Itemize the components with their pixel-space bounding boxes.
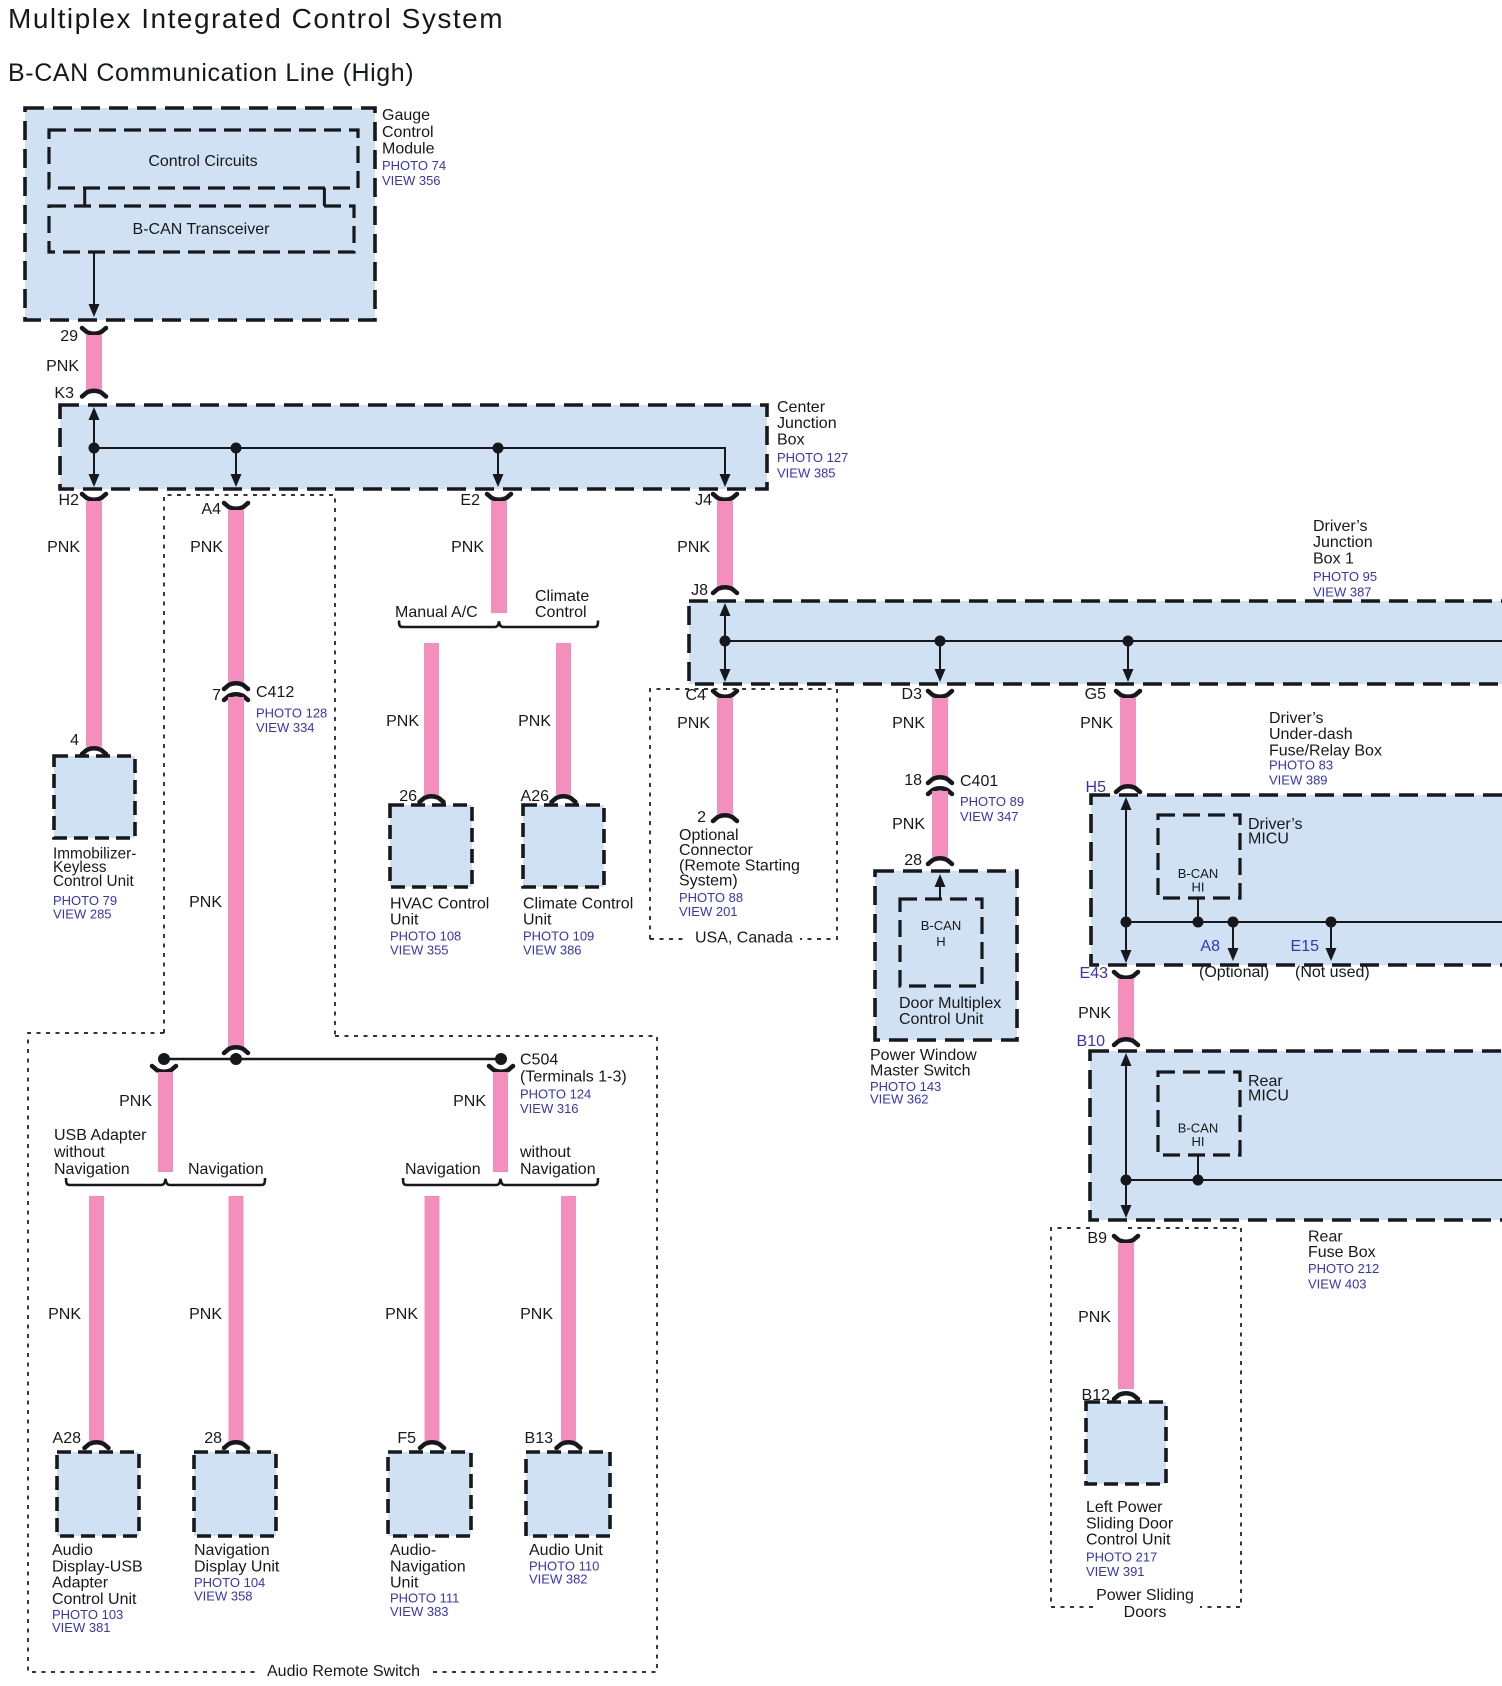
climate control unit box	[523, 805, 604, 887]
svg-text:PNK: PNK	[451, 539, 484, 556]
svg-text:VIEW 381: VIEW 381	[52, 1620, 111, 1635]
svg-text:Climate: Climate	[535, 588, 589, 605]
label climate control	[535, 588, 589, 621]
svg-text:PNK: PNK	[677, 539, 710, 556]
svg-text:Box: Box	[777, 431, 805, 448]
pin 26	[399, 788, 443, 805]
audio unit label	[529, 1542, 603, 1586]
svg-text:Display Unit: Display Unit	[194, 1558, 280, 1575]
svg-text:VIEW 389: VIEW 389	[1269, 773, 1328, 788]
wire PNK C4 to optional connector	[677, 698, 733, 814]
pin 2	[697, 809, 737, 826]
wire rear B-CAN HI to bus	[1193, 1155, 1204, 1186]
node B10/B9 vertical	[1121, 1053, 1132, 1218]
svg-text:Box 1: Box 1	[1313, 550, 1354, 567]
svg-text:(Not used): (Not used)	[1295, 964, 1370, 981]
node E15 drop	[1326, 917, 1337, 962]
svg-text:PHOTO 217: PHOTO 217	[1086, 1550, 1157, 1565]
node A8 drop	[1228, 917, 1239, 962]
svg-text:PHOTO 83: PHOTO 83	[1269, 758, 1333, 773]
svg-text:USA, Canada: USA, Canada	[695, 930, 793, 947]
rear fuse box label	[1308, 1229, 1379, 1292]
svg-text:Control: Control	[382, 124, 434, 141]
wire PNK C504 left stub	[119, 1072, 173, 1172]
pin G5	[1085, 686, 1140, 703]
B-CAN H block	[900, 899, 982, 986]
svg-text:Left Power: Left Power	[1086, 1499, 1163, 1516]
svg-text:USB Adapter: USB Adapter	[54, 1127, 147, 1144]
pin B10	[1077, 1033, 1138, 1050]
svg-text:VIEW 334: VIEW 334	[256, 720, 315, 735]
svg-text:A26: A26	[521, 788, 550, 805]
svg-text:E43: E43	[1080, 965, 1109, 982]
svg-text:VIEW 391: VIEW 391	[1086, 1564, 1145, 1579]
svg-text:Unit: Unit	[390, 1575, 419, 1592]
bus line in driver's junction box 1	[725, 640, 1502, 642]
pin H5	[1086, 779, 1140, 796]
svg-text:Audio: Audio	[52, 1542, 93, 1559]
pin B9	[1087, 1230, 1138, 1247]
svg-text:Audio Remote Switch: Audio Remote Switch	[267, 1663, 420, 1680]
svg-text:PNK: PNK	[48, 1306, 81, 1323]
svg-text:Navigation: Navigation	[390, 1558, 466, 1575]
svg-text:without: without	[53, 1144, 105, 1161]
svg-text:Climate Control: Climate Control	[523, 896, 633, 913]
wire PNK D3 to C401	[892, 698, 948, 778]
svg-text:Unit: Unit	[523, 912, 552, 929]
svg-text:VIEW 362: VIEW 362	[870, 1092, 929, 1107]
svg-text:PHOTO 88: PHOTO 88	[679, 890, 743, 905]
immobilizer-keyless control unit box	[54, 756, 135, 838]
svg-text:VIEW 355: VIEW 355	[390, 943, 449, 958]
svg-text:2: 2	[697, 809, 706, 826]
svg-text:without: without	[519, 1144, 571, 1161]
svg-text:F5: F5	[397, 1430, 416, 1447]
pin A26	[521, 788, 576, 805]
bus line in under-dash box	[1126, 921, 1502, 923]
door multiplex control unit label	[899, 995, 1001, 1028]
wire PNK J4 to J8	[677, 501, 733, 587]
svg-text:VIEW 382: VIEW 382	[529, 1571, 588, 1586]
power window master switch label	[870, 1047, 977, 1107]
svg-text:PNK: PNK	[386, 713, 419, 730]
svg-text:D3: D3	[902, 686, 923, 703]
svg-text:7: 7	[212, 687, 221, 704]
driver's MICU label	[1248, 816, 1303, 848]
split brace left pair	[66, 1178, 265, 1185]
svg-text:4: 4	[70, 732, 79, 749]
pin F5	[397, 1430, 444, 1448]
svg-text:Navigation: Navigation	[54, 1161, 130, 1178]
svg-text:Navigation: Navigation	[188, 1161, 264, 1178]
svg-text:Control Circuits: Control Circuits	[148, 153, 257, 170]
svg-text:E2: E2	[460, 492, 480, 509]
svg-text:H2: H2	[59, 492, 80, 509]
svg-text:Control Unit: Control Unit	[53, 873, 135, 890]
pin H2	[59, 492, 106, 509]
node H5/E43 vertical	[1121, 797, 1132, 963]
svg-text:PNK: PNK	[385, 1306, 418, 1323]
svg-text:Doors: Doors	[1124, 1604, 1167, 1621]
node G5 drop	[1123, 636, 1134, 683]
label without navigation	[519, 1144, 596, 1178]
split brace right pair	[403, 1178, 598, 1185]
wire PNK C504 right stub	[453, 1072, 508, 1172]
audio display-USB adapter control unit label	[52, 1542, 143, 1635]
svg-text:PHOTO 89: PHOTO 89	[960, 794, 1024, 809]
svg-text:Audio-: Audio-	[390, 1542, 436, 1559]
label navigation (right)	[405, 1161, 481, 1178]
svg-text:C4: C4	[686, 687, 707, 704]
wire: transceiver to pin 29	[89, 252, 100, 317]
svg-text:Manual A/C: Manual A/C	[395, 604, 478, 621]
svg-text:PNK: PNK	[119, 1093, 152, 1110]
svg-text:PNK: PNK	[520, 1306, 553, 1323]
svg-text:28: 28	[204, 1430, 222, 1447]
svg-text:Junction: Junction	[777, 415, 837, 432]
svg-text:Rear: Rear	[1308, 1229, 1343, 1246]
wire PNK to audio unit	[520, 1196, 576, 1441]
svg-text:K3: K3	[54, 385, 74, 402]
svg-text:C412: C412	[256, 684, 294, 701]
svg-text:VIEW 201: VIEW 201	[679, 904, 738, 919]
svg-text:PHOTO 108: PHOTO 108	[390, 929, 461, 944]
wire PNK 29 to K3	[46, 335, 102, 391]
title: Multiplex Integrated Control System	[8, 3, 504, 34]
svg-text:Driver’s: Driver’s	[1313, 518, 1368, 535]
svg-text:PNK: PNK	[1080, 715, 1113, 732]
pin A4	[201, 501, 248, 518]
svg-text:PNK: PNK	[1078, 1005, 1111, 1022]
driver's junction box 1	[689, 601, 1502, 684]
svg-text:PHOTO 212: PHOTO 212	[1308, 1261, 1379, 1276]
svg-text:A8: A8	[1200, 938, 1220, 955]
pin D3	[902, 686, 952, 703]
left power sliding door control unit label	[1086, 1499, 1174, 1579]
wire PNK C412 to C504	[189, 697, 244, 1049]
svg-text:VIEW 347: VIEW 347	[960, 809, 1019, 824]
svg-text:Navigation: Navigation	[194, 1542, 270, 1559]
svg-text:Power Sliding: Power Sliding	[1096, 1587, 1194, 1604]
svg-text:B10: B10	[1077, 1033, 1106, 1050]
node A4 drop	[231, 443, 242, 488]
svg-text:J4: J4	[695, 492, 712, 509]
svg-text:PNK: PNK	[189, 894, 222, 911]
svg-text:E15: E15	[1291, 938, 1320, 955]
svg-text:29: 29	[60, 328, 78, 345]
rear MICU block	[1158, 1072, 1240, 1155]
driver's under-dash fuse/relay box	[1091, 795, 1502, 965]
pin J4	[695, 492, 737, 509]
audio-navigation unit label	[390, 1542, 466, 1619]
svg-text:Door Multiplex: Door Multiplex	[899, 995, 1001, 1012]
svg-text:Master Switch: Master Switch	[870, 1063, 970, 1080]
wire PNK E2 down	[451, 501, 507, 613]
svg-text:PNK: PNK	[190, 539, 223, 556]
center junction box	[60, 405, 767, 489]
wire: control circuits to transceiver right	[323, 188, 326, 206]
rear fuse box	[1090, 1051, 1502, 1220]
svg-text:Adapter: Adapter	[52, 1575, 109, 1592]
svg-text:PNK: PNK	[677, 715, 710, 732]
svg-text:Fuse Box: Fuse Box	[1308, 1244, 1376, 1261]
svg-text:PNK: PNK	[47, 539, 80, 556]
pin J8	[691, 582, 737, 599]
center junction box label	[777, 399, 848, 481]
svg-text:VIEW 403: VIEW 403	[1308, 1276, 1367, 1291]
svg-text:Navigation: Navigation	[520, 1161, 596, 1178]
audio unit box	[526, 1452, 610, 1536]
left power sliding door control unit box	[1086, 1402, 1166, 1484]
pin 28 door multiplex	[904, 852, 952, 869]
wire: control circuits to transceiver left	[83, 188, 86, 206]
connector C401	[904, 772, 1024, 824]
svg-text:PHOTO 109: PHOTO 109	[523, 929, 594, 944]
node J8 vertical	[720, 603, 731, 682]
power sliding doors dashed region	[1051, 1228, 1241, 1607]
pin C4	[686, 687, 737, 704]
door multiplex control unit box	[875, 871, 1017, 1040]
node E2 drop	[493, 443, 504, 488]
pin B12	[1082, 1387, 1138, 1404]
connector C504 label	[520, 1052, 627, 1116]
svg-text:Gauge: Gauge	[382, 107, 430, 124]
label manual A/C	[395, 604, 478, 621]
bus line in center junction box	[94, 448, 725, 474]
pin B13	[525, 1430, 581, 1448]
svg-text:A28: A28	[53, 1430, 82, 1447]
svg-text:Sliding Door: Sliding Door	[1086, 1515, 1174, 1532]
svg-text:Unit: Unit	[390, 912, 419, 929]
svg-text:PNK: PNK	[453, 1093, 486, 1110]
svg-text:VIEW 386: VIEW 386	[523, 943, 582, 958]
svg-text:Multiplex Integrated Control S: Multiplex Integrated Control System	[8, 3, 504, 34]
svg-text:VIEW 383: VIEW 383	[390, 1604, 449, 1619]
svg-text:Driver’s: Driver’s	[1269, 710, 1324, 727]
svg-text:VIEW 387: VIEW 387	[1313, 585, 1372, 600]
svg-text:Under-dash: Under-dash	[1269, 726, 1353, 743]
audio remote switch dashed region	[28, 1033, 657, 1680]
svg-text:System): System)	[679, 873, 738, 890]
connector C504 terminals 1-3 bus	[152, 1047, 513, 1071]
svg-text:(Terminals 1-3): (Terminals 1-3)	[520, 1069, 627, 1086]
svg-text:J8: J8	[691, 582, 708, 599]
svg-text:Navigation: Navigation	[405, 1161, 481, 1178]
wire PNK to audio display-USB adapter control unit	[48, 1196, 104, 1441]
svg-text:Display-USB: Display-USB	[52, 1558, 143, 1575]
USA Canada dashed region	[650, 689, 837, 947]
svg-text:HVAC Control: HVAC Control	[390, 896, 489, 913]
svg-text:VIEW 356: VIEW 356	[382, 173, 441, 188]
driver's MICU block	[1158, 815, 1240, 898]
svg-text:PHOTO 128: PHOTO 128	[256, 706, 327, 721]
svg-text:PNK: PNK	[518, 713, 551, 730]
svg-text:Junction: Junction	[1313, 534, 1373, 551]
driver's junction box 1 label	[1313, 518, 1377, 600]
navigation display unit label	[194, 1542, 280, 1604]
control circuits block	[49, 130, 358, 188]
pin 29	[60, 328, 106, 345]
power sliding doors label	[1096, 1587, 1194, 1621]
svg-text:MICU: MICU	[1248, 1088, 1289, 1105]
subtitle: B-CAN Communication Line (High)	[8, 59, 414, 87]
pin E43	[1080, 965, 1138, 982]
svg-text:Module: Module	[382, 141, 435, 158]
wire PNK to audio-navigation unit	[385, 1196, 439, 1441]
svg-text:Control Unit: Control Unit	[899, 1011, 984, 1028]
svg-text:PNK: PNK	[892, 715, 925, 732]
svg-text:HI: HI	[1192, 1134, 1205, 1149]
pin E2	[460, 492, 511, 509]
svg-text:28: 28	[904, 852, 922, 869]
dashed region around A4 wire (audio remote switch extension)	[164, 495, 335, 1036]
svg-text:PNK: PNK	[189, 1306, 222, 1323]
wire PNK C401 to pin 28	[892, 791, 948, 857]
svg-text:C401: C401	[960, 773, 998, 790]
node J4 drop	[720, 470, 731, 487]
svg-text:Center: Center	[777, 399, 826, 416]
svg-text:VIEW 285: VIEW 285	[53, 907, 112, 922]
svg-text:VIEW 358: VIEW 358	[194, 1589, 253, 1604]
pin E15 label	[1291, 938, 1370, 981]
gauge control module label	[382, 107, 446, 188]
svg-text:Audio Unit: Audio Unit	[529, 1542, 603, 1559]
svg-text:HI: HI	[1192, 880, 1205, 895]
wire PNK to climate control unit	[518, 643, 571, 795]
bus line in rear fuse box	[1126, 1179, 1502, 1181]
wire PNK A4 to C412 pin 7	[190, 510, 244, 684]
svg-text:PNK: PNK	[892, 816, 925, 833]
svg-text:VIEW 385: VIEW 385	[777, 466, 836, 481]
svg-text:(Optional): (Optional)	[1199, 964, 1269, 981]
pin A28	[53, 1430, 109, 1448]
svg-text:B-CAN Transceiver: B-CAN Transceiver	[133, 221, 271, 238]
pin 4	[70, 732, 106, 754]
B-CAN transceiver block	[49, 206, 354, 252]
svg-text:PHOTO 127: PHOTO 127	[777, 450, 848, 465]
svg-text:B-CAN Communication Line (High: B-CAN Communication Line (High)	[8, 59, 414, 87]
pin K3	[54, 385, 106, 402]
svg-text:A4: A4	[201, 501, 221, 518]
wire PNK to navigation display unit	[189, 1196, 243, 1441]
optional connector label	[679, 827, 800, 919]
svg-text:G5: G5	[1085, 686, 1106, 703]
svg-text:PNK: PNK	[46, 358, 79, 375]
wire PNK H2 to immobilizer pin 4	[47, 501, 102, 747]
immobilizer-keyless control unit label	[53, 846, 136, 922]
rear MICU label	[1248, 1073, 1289, 1105]
svg-text:B13: B13	[525, 1430, 554, 1447]
svg-text:C504: C504	[520, 1052, 558, 1069]
svg-text:PNK: PNK	[1078, 1309, 1111, 1326]
wire PNK E43 to B10	[1078, 979, 1134, 1039]
navigation display unit box	[194, 1452, 276, 1536]
pin A8 label	[1199, 938, 1269, 981]
HVAC control unit box	[390, 805, 472, 887]
HVAC control unit label	[390, 896, 489, 958]
label navigation (left)	[188, 1161, 264, 1178]
svg-text:Control Unit: Control Unit	[52, 1591, 137, 1608]
pin 28 navigation display	[204, 1430, 248, 1448]
wire pin 28 into B-CAN H	[935, 874, 946, 899]
climate control unit label	[523, 896, 633, 958]
svg-text:Control: Control	[535, 604, 587, 621]
wire PNK B9 to B12	[1078, 1243, 1134, 1389]
svg-text:26: 26	[399, 788, 417, 805]
node D3 drop	[935, 636, 946, 683]
svg-text:B9: B9	[1087, 1230, 1107, 1247]
split brace for A/C types	[399, 621, 598, 628]
wire PNK G5 to H5	[1080, 698, 1136, 786]
connector C412	[212, 683, 327, 735]
wire PNK to HVAC control unit	[386, 643, 439, 795]
node K3/H2 vertical	[89, 407, 100, 487]
svg-text:Control Unit: Control Unit	[1086, 1532, 1171, 1549]
svg-text:H: H	[936, 934, 945, 949]
gauge control module box	[25, 108, 375, 320]
svg-text:PHOTO 95: PHOTO 95	[1313, 569, 1377, 584]
audio display-USB adapter control unit box	[57, 1452, 139, 1536]
svg-text:MICU: MICU	[1248, 831, 1289, 848]
wire B-CAN HI to bus	[1193, 898, 1204, 928]
label USB adapter without navigation	[53, 1127, 147, 1178]
svg-text:PHOTO 124: PHOTO 124	[520, 1087, 591, 1102]
svg-text:VIEW 316: VIEW 316	[520, 1101, 579, 1116]
svg-text:PHOTO 74: PHOTO 74	[382, 158, 446, 173]
svg-text:B-CAN: B-CAN	[921, 918, 961, 933]
audio-navigation unit box	[388, 1452, 471, 1536]
svg-text:Power Window: Power Window	[870, 1047, 977, 1064]
svg-text:18: 18	[904, 772, 922, 789]
driver's under-dash fuse/relay box label	[1269, 710, 1382, 788]
